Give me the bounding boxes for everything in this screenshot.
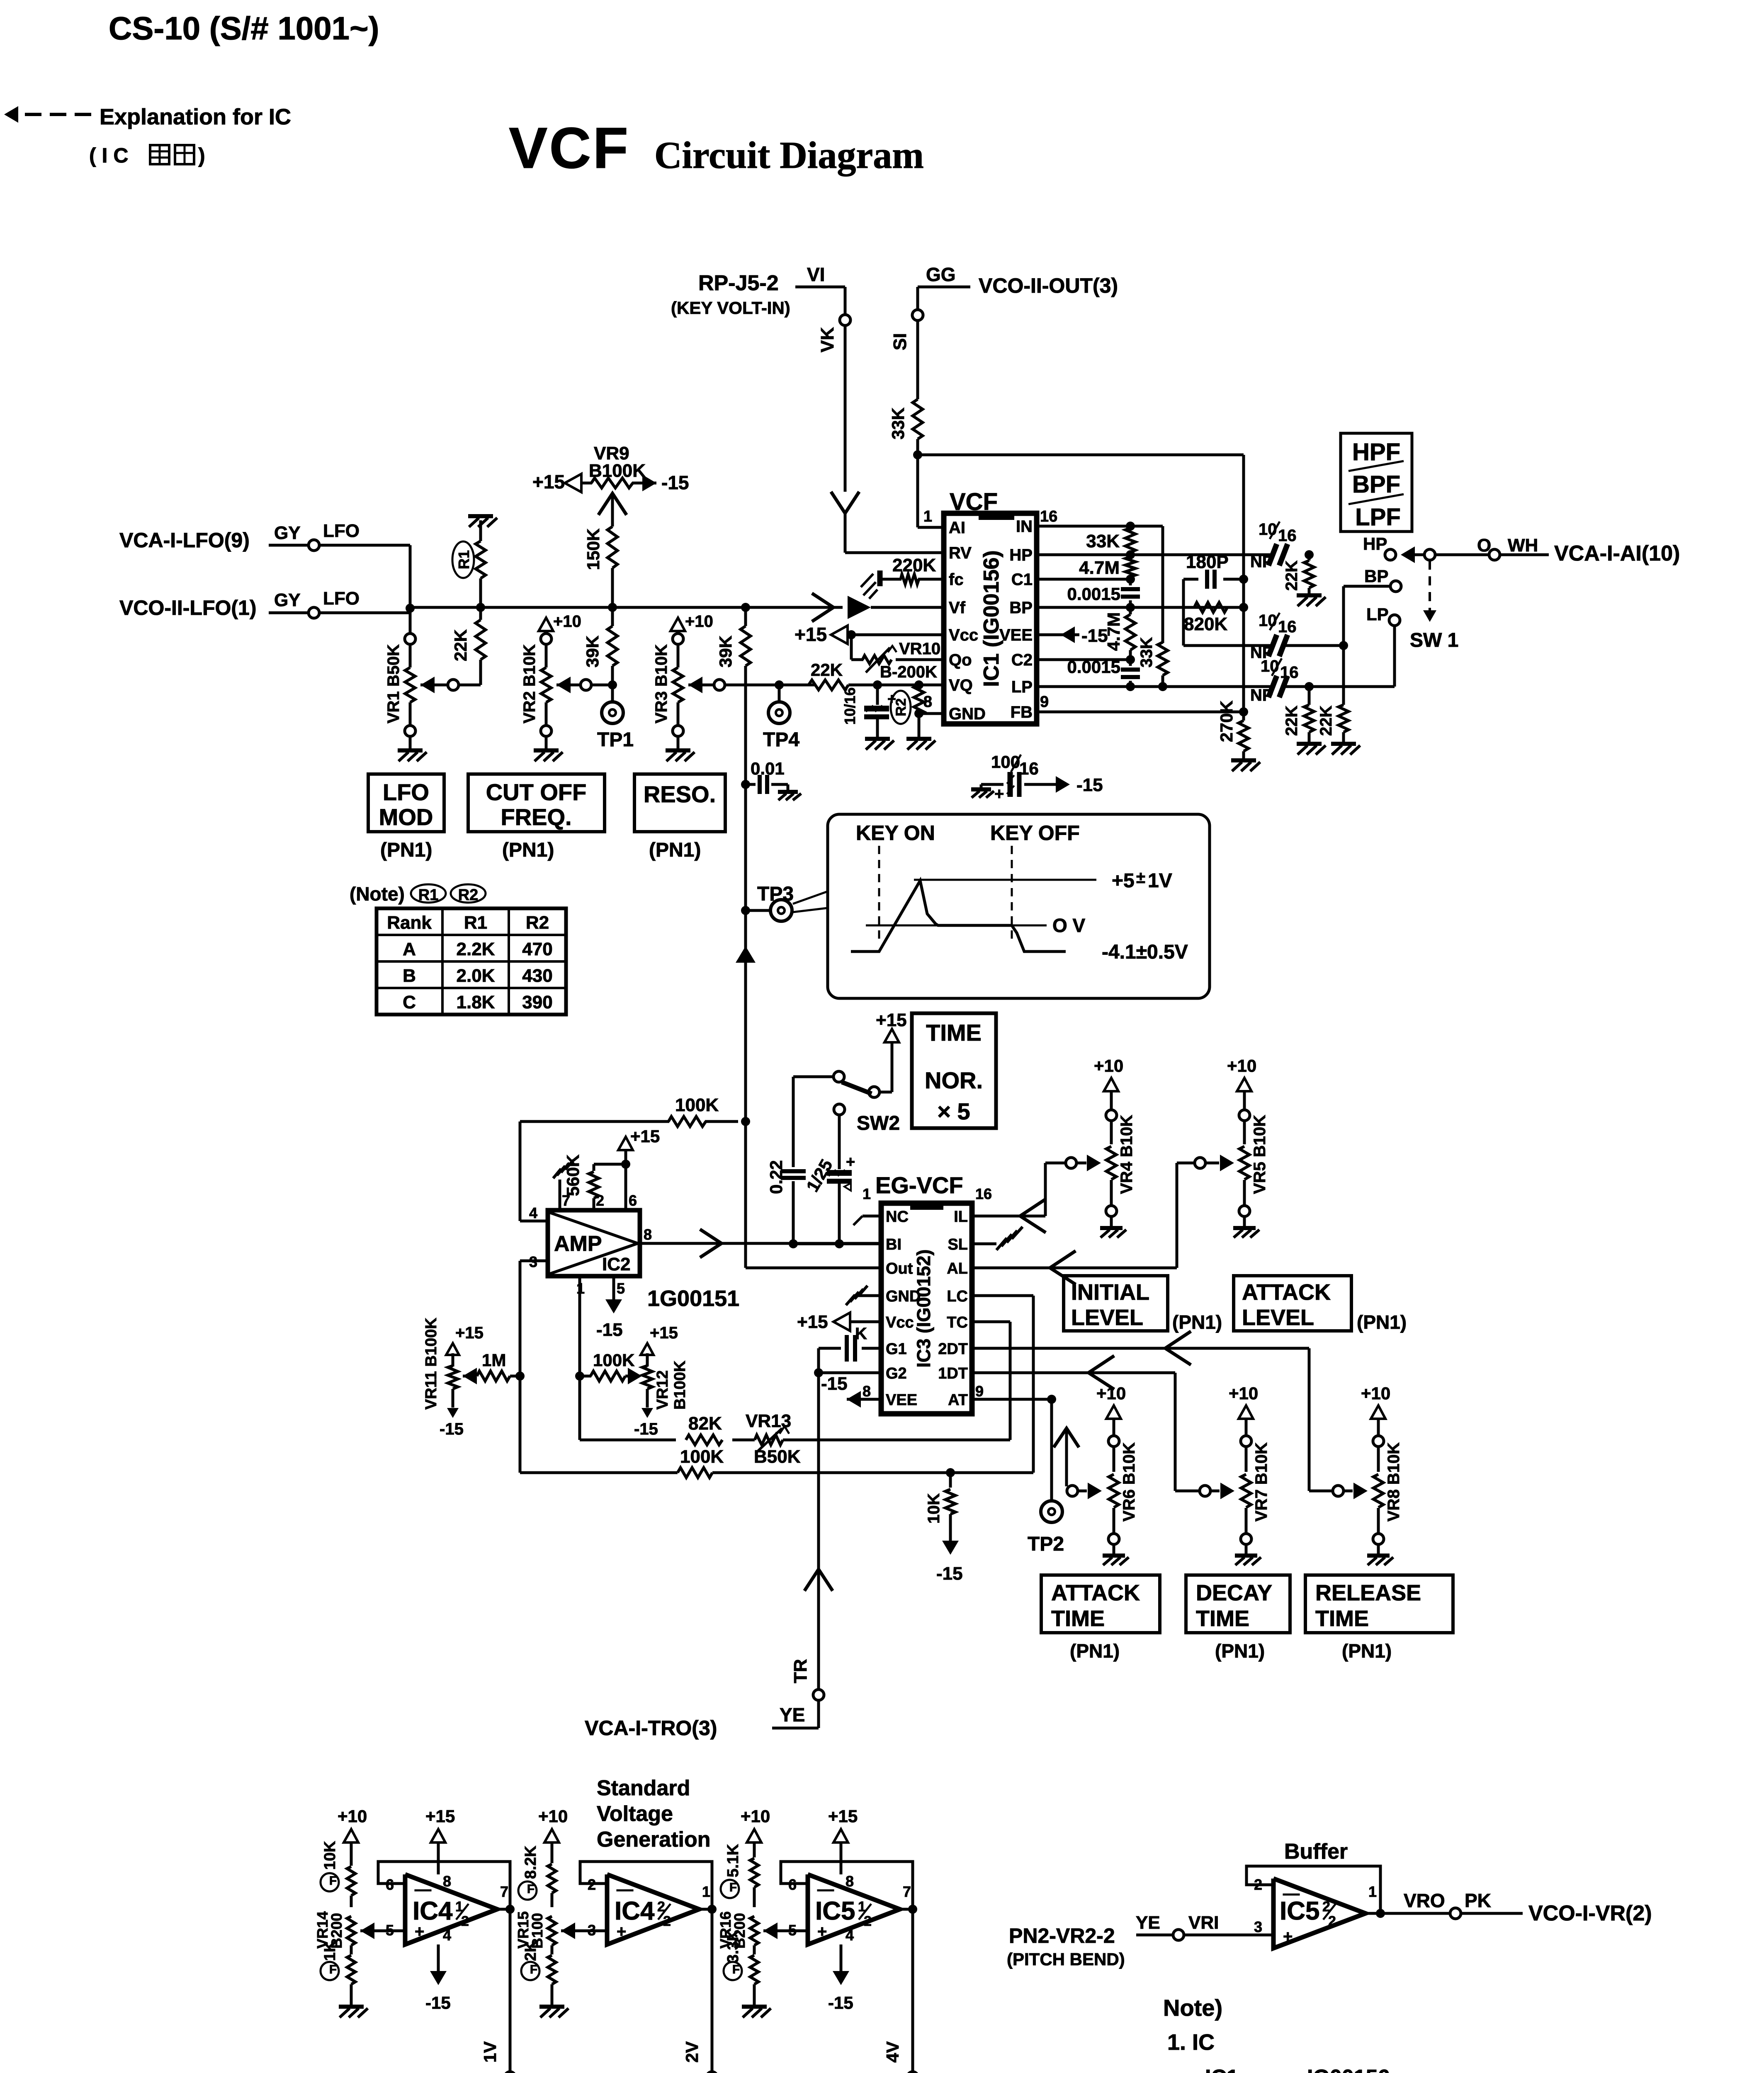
wiper VR8 arrow: [1344, 1490, 1353, 1493]
divider hpf-bpf: [1349, 461, 1404, 471]
svg-text:-15: -15: [936, 1563, 963, 1584]
svg-text:1G00151: 1G00151: [647, 1286, 739, 1311]
svg-text:4V: 4V: [883, 2041, 902, 2063]
resistor 22K hp: [1308, 555, 1311, 561]
feedback buf: [1246, 1866, 1380, 1913]
svg-text:SL: SL: [948, 1236, 968, 1253]
junction TP4: [775, 680, 784, 689]
svg-text:KEY OFF: KEY OFF: [990, 821, 1080, 845]
wire 39Ka conn: [611, 607, 614, 626]
wire BP sel: [1344, 585, 1390, 588]
svg-text:(PN1): (PN1): [1215, 1640, 1265, 1662]
junction r2 gnd: [914, 709, 923, 718]
svg-text:AT: AT: [948, 1391, 968, 1409]
wire -15 c: [840, 1944, 843, 1973]
terminal 4V: [907, 2072, 918, 2073]
svg-text:0.22: 0.22: [766, 1160, 786, 1194]
wire 1/25 down: [838, 1182, 841, 1244]
svg-text:C1: C1: [1011, 570, 1033, 589]
svg-text:180P: 180P: [1186, 552, 1229, 572]
svg-text:+15: +15: [795, 624, 827, 645]
svg-text:22K: 22K: [1283, 561, 1301, 591]
svg-text:(PN1): (PN1): [380, 839, 432, 861]
svg-text:-15: -15: [1076, 775, 1103, 795]
wire 0.22 down: [792, 1181, 795, 1244]
wire C1: [1037, 578, 1130, 581]
wire IL: [972, 1215, 1045, 1218]
svg-text:10K: 10K: [925, 1493, 943, 1524]
IC3 notch: [910, 1203, 943, 1210]
junction pin3 1M: [515, 1371, 525, 1381]
resistor 560K: [593, 1164, 595, 1171]
svg-text:+: +: [1283, 1927, 1293, 1946]
svg-text:PK: PK: [1465, 1890, 1491, 1911]
svg-text:VI: VI: [807, 264, 825, 285]
ground R2: [918, 714, 921, 737]
svg-text:AI: AI: [949, 519, 965, 537]
svg-text:470: 470: [522, 939, 552, 959]
svg-text:Voltage: Voltage: [597, 1802, 673, 1826]
svg-text:+10: +10: [338, 1806, 367, 1826]
resistor 22K left: [476, 620, 486, 660]
ground fc: [877, 570, 883, 586]
ground GND ic3: [846, 1295, 855, 1305]
svg-text:ATTACK: ATTACK: [1242, 1280, 1331, 1305]
svg-text:22K: 22K: [451, 629, 470, 661]
cap 0.0015 b: [1129, 660, 1132, 666]
svg-text:O V: O V: [1052, 915, 1086, 936]
wire ladder bracket: [1130, 525, 1163, 528]
svg-text:16: 16: [1278, 527, 1297, 545]
svg-text:B50K: B50K: [754, 1447, 801, 1467]
wire fc: [882, 578, 901, 581]
wire FB: [1037, 711, 1244, 714]
svg-text:-15: -15: [828, 1993, 853, 2012]
op-amp IC2 box: [548, 1210, 640, 1276]
resistor 100K mid: [580, 1375, 591, 1378]
arrow TR: [804, 1569, 833, 1591]
svg-text:-15: -15: [634, 1420, 658, 1438]
resistor R2: [914, 685, 924, 714]
wire 180p bracket: [1182, 579, 1185, 646]
svg-text:F: F: [329, 1874, 337, 1888]
terminal SW1 common: [1424, 549, 1435, 560]
svg-text:TIME: TIME: [1051, 1606, 1105, 1631]
junction 0.01: [741, 780, 750, 789]
wire pk: [1461, 1912, 1523, 1915]
svg-text:9: 9: [975, 1383, 984, 1400]
wire tp3 vertical: [744, 607, 747, 626]
ground c1: [350, 1984, 353, 2005]
cap NP mid: [1268, 635, 1277, 656]
svg-text:G2: G2: [886, 1365, 907, 1382]
svg-text:LC: LC: [947, 1288, 968, 1305]
svg-text:HP: HP: [1009, 546, 1033, 564]
svg-text:EG-VCF: EG-VCF: [875, 1172, 963, 1198]
label F1K: [321, 1962, 339, 1980]
svg-text:IC2: IC2: [602, 1254, 630, 1274]
resistor 270K: [1242, 712, 1245, 721]
svg-text:+10: +10: [1229, 1384, 1258, 1403]
svg-text:LEVEL: LEVEL: [1242, 1305, 1314, 1330]
arrow 1DT: [1089, 1356, 1114, 1389]
svg-text:BPF: BPF: [1352, 471, 1400, 498]
arrow +15 a: [431, 1829, 445, 1842]
svg-text:2: 2: [864, 1913, 872, 1929]
arrow +10 vr3: [671, 618, 685, 631]
svg-text:+10: +10: [1361, 1384, 1390, 1403]
cap 0.01: [746, 783, 756, 786]
svg-text:220K: 220K: [892, 555, 936, 575]
svg-text:1. IC: 1. IC: [1167, 2030, 1215, 2055]
svg-text:1.8K: 1.8K: [457, 992, 495, 1012]
label tri 1/25: [844, 1183, 851, 1191]
svg-text:CUT OFF: CUT OFF: [486, 779, 587, 805]
svg-text:TC: TC: [947, 1314, 968, 1331]
svg-text:82K: 82K: [688, 1413, 722, 1434]
pot VR16: [750, 1916, 758, 1945]
resistor 150K: [607, 527, 617, 568]
ground R1 top: [468, 514, 493, 518]
svg-text:VR13: VR13: [746, 1411, 791, 1431]
wire c2 a: [551, 1893, 554, 1907]
svg-text:2V: 2V: [682, 2041, 702, 2063]
ground c3: [753, 1984, 756, 2005]
wire GG: [918, 286, 970, 289]
wiper VR3: [714, 680, 725, 690]
svg-text:LFO: LFO: [383, 779, 429, 805]
svg-text:GY: GY: [274, 590, 301, 610]
svg-text:NC: NC: [886, 1208, 909, 1226]
resistor F10K: [347, 1867, 355, 1896]
svg-text:YE: YE: [1136, 1913, 1160, 1933]
svg-text:2.0K: 2.0K: [457, 966, 495, 986]
svg-text:K: K: [855, 1325, 867, 1343]
svg-text:3.3K: 3.3K: [724, 1930, 742, 1963]
wire AL: [972, 1267, 1177, 1270]
pot VR6: [1106, 1405, 1121, 1419]
svg-text:VCO-II-LFO(1): VCO-II-LFO(1): [119, 596, 257, 619]
arrow Vcc ic3: [833, 1313, 850, 1331]
pot VR13: [755, 1435, 783, 1445]
terminal 1V: [505, 2072, 515, 2073]
svg-text:2: 2: [461, 1913, 469, 1929]
svg-text:5.1K: 5.1K: [724, 1844, 742, 1877]
IC2 triangle: [548, 1212, 638, 1274]
ground pin7: [553, 1169, 561, 1178]
junction HP ladder: [1126, 550, 1135, 559]
svg-text:-4.1±0.5V: -4.1±0.5V: [1102, 941, 1188, 963]
svg-text:VEE: VEE: [999, 626, 1033, 644]
junction C1 ladder: [1126, 575, 1135, 584]
svg-text:—: —: [817, 1880, 834, 1898]
junction out c: [908, 1905, 917, 1914]
svg-text:CS-10 (S/# 1001~): CS-10 (S/# 1001~): [109, 10, 379, 46]
arrow VR6 up: [1054, 1428, 1079, 1447]
wire out c: [900, 1908, 913, 1911]
svg-text:AL: AL: [947, 1260, 968, 1277]
svg-text:TP4: TP4: [763, 729, 799, 751]
svg-text:VR12: VR12: [654, 1370, 671, 1410]
svg-text:F: F: [729, 1881, 737, 1894]
junction 1/25: [835, 1239, 844, 1248]
box RELEASE TIME: [1305, 1575, 1453, 1633]
svg-text:Standard: Standard: [597, 1776, 690, 1800]
svg-text:F: F: [732, 1963, 740, 1976]
level +5: [914, 879, 1096, 881]
box LFO MOD: [368, 774, 444, 832]
terminal VK: [840, 315, 850, 325]
svg-text:+15: +15: [532, 471, 565, 493]
svg-text:1: 1: [702, 1883, 710, 1900]
svg-text:VCA-I-LFO(9): VCA-I-LFO(9): [119, 529, 250, 552]
arrow IL: [1020, 1199, 1046, 1233]
svg-text:+15: +15: [797, 1312, 828, 1332]
resistor 39K b: [741, 626, 751, 666]
svg-text:560K: 560K: [563, 1155, 583, 1196]
arrow +15 c: [833, 1829, 848, 1842]
svg-text:VR1 B50K: VR1 B50K: [384, 644, 403, 723]
svg-text:16: 16: [1278, 618, 1297, 636]
wiper VR15: [561, 1923, 575, 1939]
box ATTACK TIME: [1041, 1575, 1160, 1633]
svg-text:39K: 39K: [583, 636, 602, 668]
svg-text:LP: LP: [1366, 604, 1389, 624]
svg-text:VR10: VR10: [899, 640, 940, 658]
junction TP3: [741, 906, 750, 915]
terminal O wh: [1489, 549, 1500, 560]
svg-text:TIME: TIME: [926, 1020, 982, 1046]
NC tick: [863, 1215, 881, 1218]
junction hp 22k: [1305, 550, 1314, 559]
wire HP: [1037, 553, 1130, 556]
junction +15 ic2: [621, 1160, 630, 1169]
svg-text:1: 1: [1368, 1883, 1377, 1900]
terminal TR: [813, 1689, 824, 1700]
svg-text:16: 16: [1040, 508, 1057, 525]
terminal VR5 wiper: [1195, 1158, 1205, 1168]
svg-text:ATTACK: ATTACK: [1051, 1580, 1140, 1605]
svg-text:-15: -15: [596, 1320, 623, 1340]
arrow +10 c1: [344, 1829, 358, 1842]
svg-text:22K: 22K: [1317, 706, 1335, 736]
wire SI vertical: [916, 287, 919, 399]
svg-text:B100K: B100K: [671, 1360, 689, 1410]
wire AI: [916, 455, 919, 527]
table note box: [377, 908, 566, 1015]
svg-text:33K: 33K: [1137, 637, 1156, 668]
cap 100/16: [1008, 772, 1013, 797]
junction FB: [1239, 707, 1248, 716]
ground SL: [972, 1243, 996, 1245]
label F51K: [721, 1880, 739, 1898]
arrow VEE ic3: [847, 1391, 861, 1408]
wire TP1: [611, 685, 614, 702]
junction g2: [814, 1368, 823, 1377]
svg-text:Qo: Qo: [949, 651, 972, 669]
junction vq cap: [873, 680, 882, 689]
svg-text:8: 8: [644, 1226, 652, 1243]
svg-text:10K: 10K: [321, 1841, 339, 1870]
svg-text:Rank: Rank: [387, 913, 432, 933]
cap 1/25: [827, 1170, 852, 1176]
svg-text:VCF: VCF: [509, 115, 630, 180]
svg-text:AMP: AMP: [554, 1232, 602, 1256]
junction 100K tp3line: [741, 1117, 750, 1126]
svg-text:-15: -15: [425, 1993, 451, 2012]
svg-text:8: 8: [443, 1873, 451, 1890]
wiper VR12: [625, 1375, 634, 1378]
svg-text:GG: GG: [926, 264, 956, 285]
terminal LFO 1: [309, 540, 319, 551]
box TIME NOR: [912, 1013, 996, 1128]
terminal HP: [1385, 549, 1396, 560]
arrow VEE -15: [1061, 626, 1075, 643]
svg-text:430: 430: [522, 966, 552, 986]
svg-text:(KEY VOLT-IN): (KEY VOLT-IN): [671, 298, 790, 318]
svg-text:NP: NP: [1250, 686, 1273, 704]
svg-text:-15: -15: [821, 1374, 848, 1394]
svg-text:R1: R1: [455, 550, 472, 569]
junction pin1 100K: [575, 1371, 584, 1381]
svg-text:Vcc: Vcc: [886, 1314, 914, 1331]
terminal VR6 wiper: [1067, 1486, 1078, 1496]
svg-text:2K: 2K: [522, 1941, 539, 1961]
svg-text:4: 4: [846, 1927, 854, 1944]
svg-text:2.2K: 2.2K: [457, 939, 495, 959]
dashed key on: [878, 846, 880, 940]
svg-text:R2: R2: [893, 698, 909, 716]
terminal SW2 a: [833, 1071, 844, 1082]
box INITIAL LEVEL: [1064, 1276, 1168, 1331]
terminal VR2 top: [541, 634, 552, 644]
wire 100K line: [520, 1471, 678, 1474]
buffer arrow open: [812, 593, 833, 621]
wire -15 a: [437, 1944, 440, 1973]
svg-text:7: 7: [500, 1883, 508, 1900]
junction LP ladder: [1126, 682, 1135, 691]
svg-text:R2: R2: [526, 913, 549, 933]
wire lfo2: [319, 612, 410, 614]
wire c1 a: [350, 1896, 353, 1907]
feedback c: [781, 1862, 913, 1909]
box ATTACK LEVEL: [1234, 1276, 1351, 1331]
testpoint TP4: [768, 702, 790, 723]
op-amp IC5a: [808, 1874, 900, 1944]
wire 1DT: [972, 1371, 1175, 1374]
svg-text:5: 5: [788, 1922, 797, 1939]
resistor 22K bp: [1339, 705, 1349, 732]
svg-text:+: +: [846, 1153, 855, 1171]
pot VR8: [1371, 1405, 1385, 1419]
wiper VR16: [763, 1923, 778, 1939]
wire pin1 down: [578, 1276, 581, 1440]
svg-text:IN: IN: [1016, 517, 1033, 536]
ground 22K bp: [1331, 742, 1356, 746]
svg-text:NOR.: NOR.: [925, 1067, 983, 1093]
wire VEE: [1037, 634, 1079, 636]
svg-text:SW 1: SW 1: [1410, 629, 1458, 651]
pot VR10: [863, 655, 892, 664]
svg-text:(PN1): (PN1): [1070, 1640, 1120, 1662]
arrow +10 vr2: [539, 618, 553, 631]
svg-text:LEVEL: LEVEL: [1071, 1305, 1143, 1330]
wire lp right: [1285, 685, 1395, 688]
op-amp IC1 box: [944, 513, 1037, 724]
svg-text:VCF: VCF: [950, 488, 998, 515]
cap 10/16 vq: [864, 706, 889, 711]
resistor 39K a: [607, 626, 617, 666]
junction mid: [1339, 641, 1348, 650]
svg-text:MOD: MOD: [379, 804, 433, 830]
svg-text:22K: 22K: [1283, 706, 1301, 736]
pot VR2 B10K: [545, 644, 548, 668]
svg-text:B100K: B100K: [589, 461, 646, 481]
wire c3 a: [753, 1887, 756, 1907]
pot VR3 B10K: [677, 644, 680, 668]
svg-text:+15: +15: [455, 1324, 484, 1342]
svg-text:TIME: TIME: [1196, 1606, 1249, 1631]
svg-text:Vcc: Vcc: [949, 626, 978, 644]
terminal VR4 wiper: [1066, 1158, 1076, 1168]
svg-text:VRO: VRO: [1404, 1890, 1445, 1911]
junction C2 ladder: [1126, 655, 1135, 664]
resistor 4.7M b: [1129, 607, 1132, 614]
svg-text:R2: R2: [458, 886, 479, 904]
wire TP3: [746, 909, 770, 912]
table note hlines: [377, 934, 566, 936]
wire AT: [972, 1398, 1052, 1401]
svg-text:INITIAL: INITIAL: [1071, 1280, 1149, 1305]
wire VR1 top: [409, 608, 412, 634]
svg-text:Explanation for IC: Explanation for IC: [100, 104, 291, 129]
svg-text:B: B: [403, 966, 416, 986]
svg-text:F: F: [527, 1882, 535, 1896]
label F10K: [321, 1873, 339, 1891]
arrow +15 ic2: [618, 1137, 633, 1150]
wire pin3 down: [519, 1261, 522, 1473]
resistor 33K input: [913, 399, 923, 439]
svg-text:VR4 B10K: VR4 B10K: [1118, 1115, 1136, 1194]
svg-text:LFO: LFO: [323, 588, 360, 609]
svg-text:IC4: IC4: [615, 1897, 655, 1925]
wire VR9 wiper: [611, 493, 614, 527]
ground 270K: [1231, 758, 1256, 762]
wiper VR14: [360, 1923, 374, 1939]
svg-text:7: 7: [562, 1192, 570, 1209]
wire g2: [817, 1348, 820, 1373]
svg-text:PN2-VR2-2: PN2-VR2-2: [1009, 1924, 1115, 1947]
label F82K: [518, 1881, 537, 1900]
svg-text:IC1 (IG00156): IC1 (IG00156): [979, 550, 1003, 687]
svg-text:+: +: [817, 1923, 827, 1941]
svg-text:VR7 B10K: VR7 B10K: [1252, 1442, 1271, 1522]
svg-text:VCA-I-TRO(3): VCA-I-TRO(3): [585, 1716, 717, 1740]
svg-text:VR2 B10K: VR2 B10K: [520, 644, 539, 723]
svg-text:IC5: IC5: [815, 1897, 855, 1925]
pot VR14: [347, 1916, 355, 1945]
svg-text:(PITCH BEND): (PITCH BEND): [1007, 1949, 1125, 1969]
arrow vr9 right: [642, 475, 656, 491]
svg-text:+15: +15: [425, 1806, 455, 1826]
terminal 2V: [707, 2072, 717, 2073]
wire 82K line: [580, 1439, 676, 1442]
svg-text:5: 5: [617, 1280, 625, 1297]
cap 0.0015 a: [1129, 579, 1132, 585]
svg-text:BI: BI: [886, 1236, 901, 1253]
wire TR: [817, 1373, 820, 1689]
svg-text:4: 4: [529, 1204, 537, 1221]
